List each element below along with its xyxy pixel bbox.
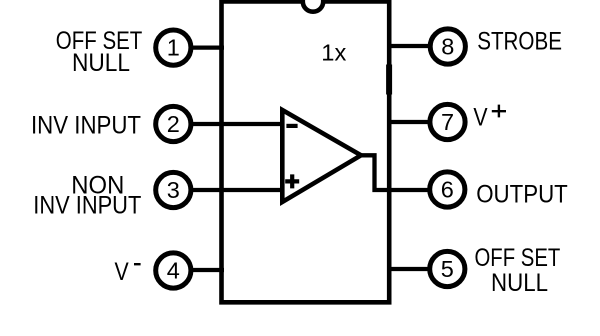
right edge doubled segment (386, 65, 392, 95)
svg-text:V: V (115, 258, 129, 286)
pin 1 circle (156, 30, 191, 65)
pin 4 circle (156, 253, 191, 288)
svg-text:6: 6 (441, 177, 454, 203)
wire pin 1 (192, 45, 224, 49)
svg-text:2: 2 (167, 111, 180, 137)
wire pin 5 (387, 267, 429, 271)
svg-text:1x: 1x (321, 40, 347, 66)
pin 7 circle (430, 104, 465, 139)
svg-text:8: 8 (441, 34, 454, 60)
svg-text:OFF SET: OFF SET (475, 244, 561, 272)
svg-text:INV INPUT: INV INPUT (31, 112, 141, 140)
svg-text:NULL: NULL (72, 49, 130, 77)
op-amp plus input sign (285, 174, 299, 188)
wire pin 3 to non-inverting input (191, 188, 282, 192)
svg-text:OUTPUT: OUTPUT (476, 181, 568, 209)
label pin4 superscript minus (134, 263, 141, 265)
svg-text:V: V (473, 104, 487, 132)
pin 3 circle (156, 172, 191, 207)
svg-text:1: 1 (167, 35, 180, 61)
svg-text:NULL: NULL (491, 269, 548, 297)
pin 6 circle (430, 172, 465, 207)
wire pin 4 (192, 268, 224, 272)
svg-text:3: 3 (167, 177, 180, 203)
wire pin 2 to inverting input (190, 122, 282, 126)
IC body U1 (DIP-8 outline with index notch) (222, 2, 390, 303)
svg-text:7: 7 (441, 109, 454, 135)
op-amp minus input sign (286, 124, 297, 128)
wire pin 7 (387, 120, 429, 124)
wire pin 8 (387, 44, 429, 48)
wire output jog from op-amp to pin 6 (359, 155, 429, 190)
svg-text:INV INPUT: INV INPUT (33, 192, 141, 220)
op-amp A1 triangle (282, 110, 361, 202)
pin 5 circle (430, 251, 465, 286)
label pin7 superscript plus (492, 105, 506, 118)
svg-text:4: 4 (167, 258, 180, 284)
pin 2 circle (156, 106, 191, 141)
svg-text:5: 5 (441, 256, 454, 282)
pin 8 circle (430, 29, 465, 64)
svg-text:STROBE: STROBE (477, 27, 562, 55)
